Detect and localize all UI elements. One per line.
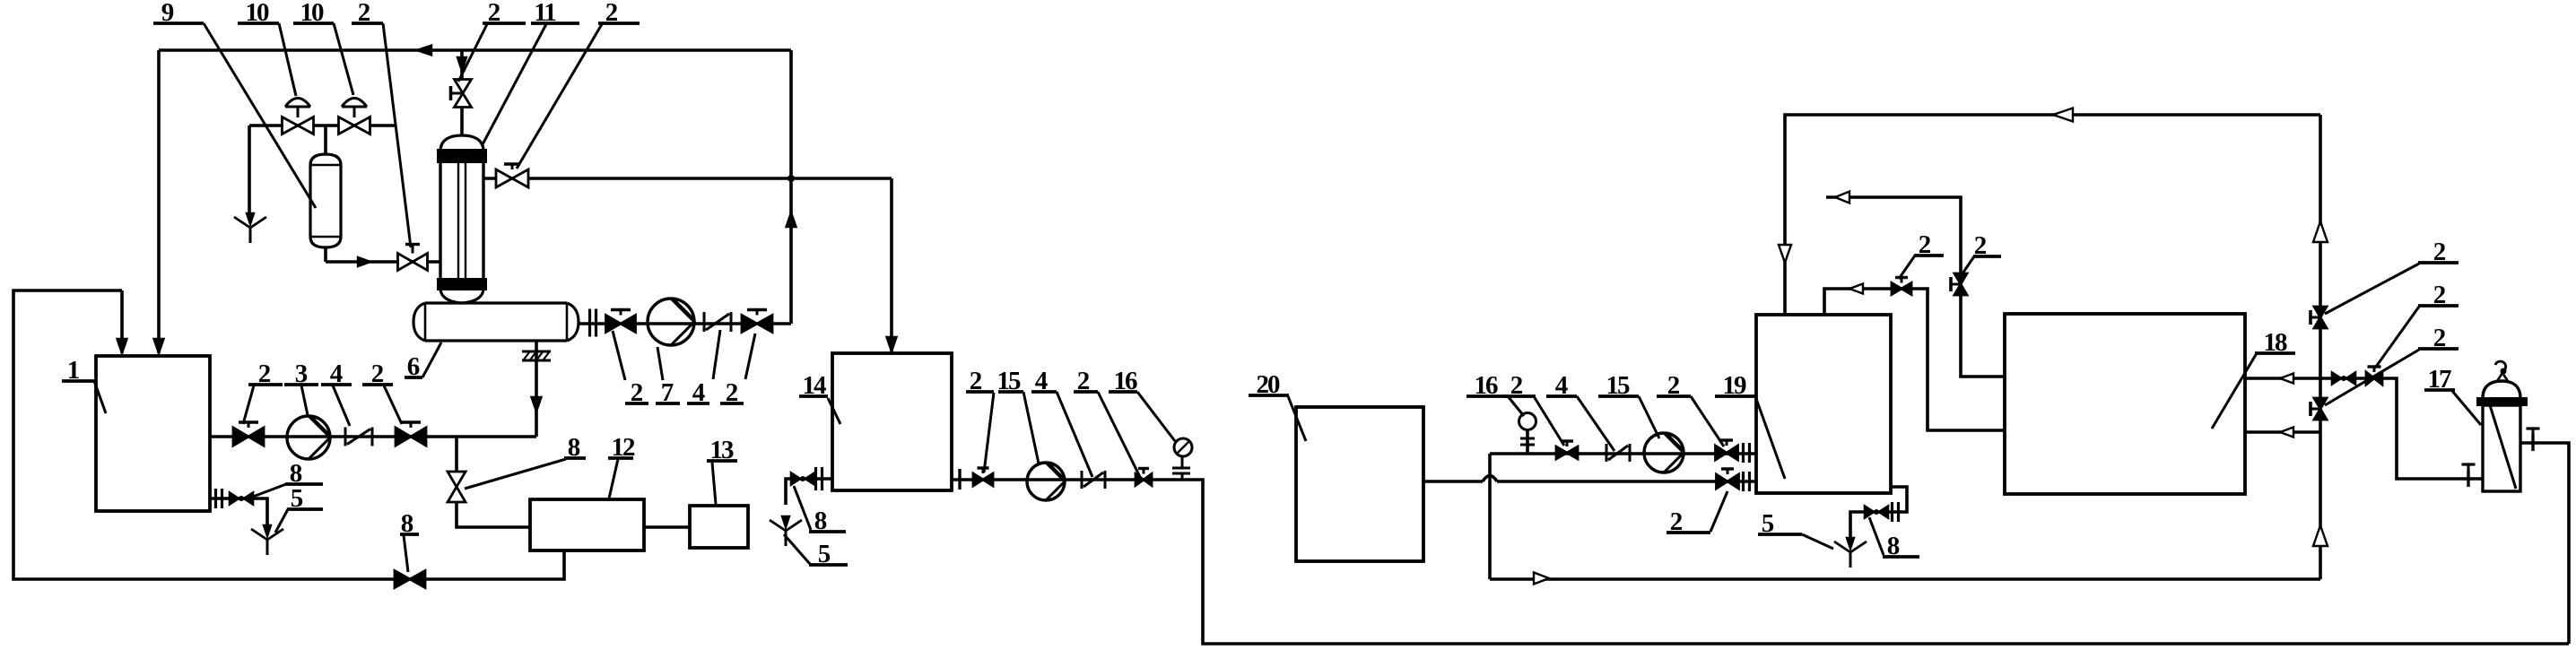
solid arrow down under vessel 6 xyxy=(532,397,542,412)
wire box 20 outlet line y537 left of hop xyxy=(1423,480,1483,483)
valve 2 at box 19 upper inlet xyxy=(1716,446,1738,460)
solid arrow left on top header xyxy=(417,46,431,56)
wire tank 1 drain stub xyxy=(210,498,267,525)
pump 15 feeding box 19 xyxy=(1644,433,1684,472)
valve 2 on column 9 bottom line xyxy=(398,254,428,271)
wire bottom recycle line y646 xyxy=(1490,577,2320,581)
wire column 11 overhead stem upper xyxy=(460,50,464,80)
rupture disc flange under vessel 6 xyxy=(522,351,551,353)
valve 2 on column 11 side line xyxy=(496,169,528,187)
hourglass valve 2 upper on riser xyxy=(2314,307,2327,328)
valve 8 on bottom recycle line xyxy=(395,571,425,588)
valve 2 at vessel 6 outlet xyxy=(606,316,636,333)
flange pair at box 19 upper inlet xyxy=(1742,443,1745,463)
valve 2 on pump 15 feed line xyxy=(1556,446,1578,459)
valve on vessel 17 outlet xyxy=(2531,435,2534,451)
wire top return line y128 into box 19 xyxy=(1785,115,2320,315)
check valve 4 after pump 7 xyxy=(703,312,706,332)
wire drop into tank 1 top x136 xyxy=(120,290,124,353)
drain funnel 5 below tank 1 xyxy=(264,525,271,536)
hollow arrow left on top return line xyxy=(2053,108,2073,122)
pump 15 after box 14 xyxy=(1027,463,1065,500)
pump 7 xyxy=(648,299,694,345)
tank 1 xyxy=(96,356,210,511)
wire pump 3 suction/discharge line y487 xyxy=(210,435,536,438)
vent drain funnel below control valve header xyxy=(247,213,254,224)
hollow arrow right on bottom recycle line xyxy=(1534,573,1549,585)
wire box 18 right upper line to riser xyxy=(2245,377,2320,380)
solid arrow down into tank 1 left port xyxy=(117,339,127,353)
control valve 10 left xyxy=(283,117,314,134)
hourglass valve 2 on column 11 overhead xyxy=(455,80,472,108)
pump 3 xyxy=(287,416,330,459)
box 12 xyxy=(530,499,644,550)
wire vessel 6 outlet line y361 xyxy=(579,322,791,325)
wire vent line y220 and drop to box 18 xyxy=(1826,197,2005,377)
valve 2 at box 19 lower inlet xyxy=(1717,474,1739,489)
wire recycle from box 12: bottom line y644 xyxy=(13,290,564,579)
flange pair on box 19 bottom drain xyxy=(1891,502,1893,522)
solid arrow up on pump 7 riser xyxy=(787,212,796,227)
hollow arrow down into box 19 xyxy=(1779,245,1791,263)
column 11 top dome xyxy=(440,135,483,150)
flange at box 14 outlet xyxy=(958,469,961,490)
hollow arrow up on riser upper xyxy=(2313,221,2328,242)
vessel 6 horizontal drum xyxy=(413,303,579,341)
flow meter 16 xyxy=(1174,438,1192,456)
wire pump 15 line y506 into box 19 xyxy=(1490,452,1756,455)
column 11 top flange band xyxy=(438,150,486,162)
box 13 xyxy=(690,506,748,548)
wire box 19 top branch to box 18 via valve xyxy=(1824,289,2005,430)
valve 2 on box 19 top branch xyxy=(1892,283,1911,295)
fitting 8 at box 14 left drain xyxy=(791,473,800,485)
wire column 11 overhead stem lower xyxy=(460,107,464,136)
box 14 xyxy=(832,353,952,490)
wire box 14 outlet line y535 to bottom transfer line xyxy=(952,480,2569,644)
wire column 9 bottom line to column 11 xyxy=(326,260,440,264)
column 11 bottom flange band xyxy=(438,279,486,290)
fitting 8 on tank 1 drain xyxy=(230,493,239,505)
wire drop to vent drain x278 xyxy=(248,126,251,218)
fitting 8 on box 19 bottom drain xyxy=(1865,507,1874,518)
hourglass valve 2 lower on riser xyxy=(2314,398,2327,420)
solid arrow down on column 11 overhead xyxy=(457,57,466,71)
wire main right riser x2587 xyxy=(2319,115,2322,579)
flange pair at box 19 lower inlet xyxy=(1742,472,1745,491)
hollow arrow left on box 18 upper right line xyxy=(2280,374,2293,384)
pressure gauge 16 xyxy=(1519,413,1536,430)
wire column 11 side line y199 to box 14 xyxy=(483,177,892,180)
column 9 xyxy=(310,154,341,247)
column 11 bottom dome xyxy=(440,290,483,303)
wire drop through valve 8 to box 12 upper xyxy=(455,437,458,472)
valve 2 tee fitting before vessel 17 branch xyxy=(2366,372,2382,385)
valve 2 tank 1 outlet xyxy=(233,428,264,446)
valve on vessel 17 feed line xyxy=(2467,471,2469,487)
wire vertical branch x1661 xyxy=(1488,454,1492,579)
wire box 12 to box 13 connector xyxy=(644,525,690,529)
check valve 4 before pump 15 xyxy=(1606,444,1608,462)
wire drop into box 14 top xyxy=(890,178,893,351)
drain funnel 5 below box 19 xyxy=(1847,538,1854,549)
wire box 19 bottom drain piping xyxy=(1850,487,1907,539)
wire column 9 top stub xyxy=(324,126,327,154)
wire box 20 outlet line y537 right of hop xyxy=(1497,480,1756,483)
wire pump 7 discharge riser x882 xyxy=(789,50,793,324)
drain funnel 5 below box 14 xyxy=(782,516,789,527)
solid arrow right on column 9 bottom line xyxy=(358,257,370,266)
solid arrow down into tank 1 right port xyxy=(154,339,164,353)
column 11 body xyxy=(439,161,441,280)
node junction at 882,199 xyxy=(788,175,795,182)
valve 8 vertical hourglass to box 12 xyxy=(448,472,466,502)
vessel 17 body xyxy=(2483,405,2520,491)
solid arrow down into box 14 xyxy=(887,337,897,351)
valve 2 after pump 7 xyxy=(742,316,772,333)
wire box 14 left drain stub xyxy=(786,479,832,505)
box 18 xyxy=(2005,314,2245,494)
wire vessel 17 outlet to bottom transfer line xyxy=(2520,443,2569,644)
wire vessel 6 bottom drop x598 xyxy=(535,341,538,437)
wire control valve header y140 xyxy=(249,124,395,127)
check valve 4 after pump 3 xyxy=(344,428,347,446)
box 19 xyxy=(1756,315,1891,493)
flange pair at vessel 6 outlet xyxy=(588,309,591,337)
vessel 17 lifting hook xyxy=(2497,373,2508,381)
control valve 10 right xyxy=(339,117,370,134)
box 20 xyxy=(1296,407,1423,561)
hollow arrow up on riser lower xyxy=(2313,525,2328,546)
valve 2 after check valve xyxy=(396,428,426,446)
valve 2 at box 14 outlet xyxy=(973,473,993,486)
vessel 17 flange xyxy=(2477,398,2527,405)
vessel 17 internal diagonal xyxy=(2490,405,2516,489)
flange on tank 1 drain xyxy=(214,489,217,508)
fitting 2 right of riser xyxy=(2332,373,2341,385)
flange pair at box 14 left drain xyxy=(814,467,817,490)
wire pressure gauge stem xyxy=(1526,430,1529,454)
vessel 17 dome xyxy=(2483,381,2520,398)
wire riser to vessel 17 lower feed xyxy=(2320,378,2484,479)
wire top header line y56 xyxy=(159,48,791,52)
hollow arrow left on box 19 top branch xyxy=(1849,284,1863,294)
check valve 4 after pump 15 xyxy=(1081,471,1083,489)
hollow arrow left on vent line xyxy=(1835,192,1849,204)
wire box 18 right lower line to riser xyxy=(2245,430,2320,434)
hollow arrow left on box 18 lower right line xyxy=(2280,428,2293,438)
pipe hop over vertical at 1661 xyxy=(1483,476,1497,482)
wire drop through valve 8 to box 12 lower xyxy=(457,502,530,527)
valve 2 before flow meter xyxy=(1136,474,1152,486)
wire column 9 bottom stub xyxy=(324,247,327,262)
wire left riser of top header into tank 1 xyxy=(157,50,161,353)
hourglass valve 2 on vent drop line xyxy=(1954,273,1967,295)
